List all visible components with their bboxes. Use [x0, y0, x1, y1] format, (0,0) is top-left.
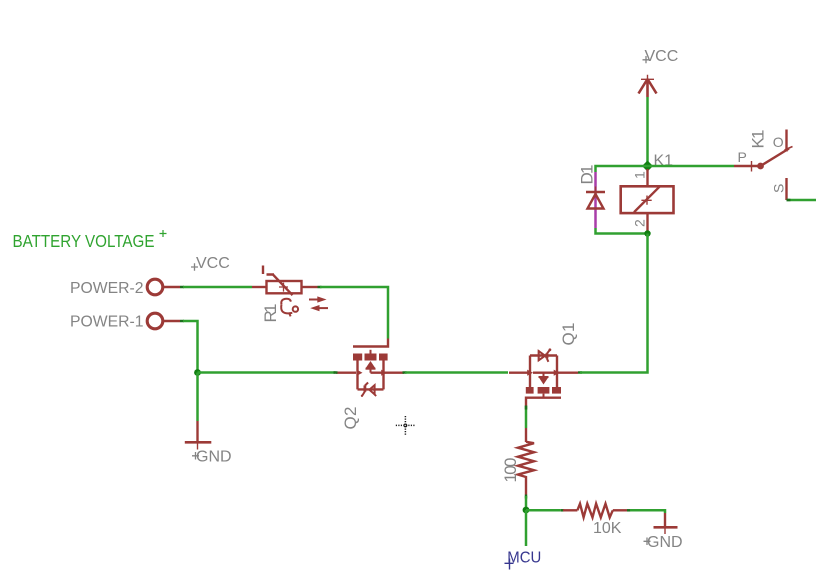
pin tick 10K left [561, 509, 565, 512]
svg-text:GND: GND [647, 534, 683, 551]
wire POWER-2 to R1 [183, 286, 252, 289]
pin POWER-2 lead [164, 286, 181, 288]
pin tick S [787, 199, 791, 202]
relay K1 switch pivot [757, 163, 764, 170]
diode D1 [586, 187, 605, 209]
pin POWER-2 circle [147, 279, 163, 295]
svg-text:R1: R1 [261, 304, 280, 323]
power symbol VCC (top) label [643, 48, 679, 65]
label VCC (net at POWER-2) [191, 255, 230, 272]
ground GND (left) [185, 421, 212, 450]
svg-text:S: S [770, 184, 786, 193]
wire K1 node to switch pin P [648, 165, 735, 168]
svg-text:VCC: VCC [645, 48, 679, 65]
pin POWER-1 lead [164, 320, 181, 322]
wire MCU node to 10K [526, 509, 561, 512]
svg-text:POWER-1: POWER-1 [70, 314, 144, 331]
resistor R1 (trimmer) [252, 266, 318, 296]
wire bus junction down to GND [196, 373, 199, 422]
pin 1 lead (coil) [646, 169, 648, 186]
relay K1 switch terminal O [785, 130, 787, 152]
wire VCC arrow to relay K1 node [646, 97, 649, 166]
relay K1 coil box [621, 186, 674, 213]
label GND (left) [192, 449, 232, 466]
relay K1 switch terminal S [785, 178, 787, 200]
mouse cursor crosshair [396, 416, 415, 435]
label MCU [505, 550, 542, 570]
wire Q2 to Q1 [405, 371, 508, 374]
svg-text:2: 2 [631, 219, 647, 227]
pin tick 100 bottom [525, 495, 528, 499]
svg-text:BATTERY VOLTAGE: BATTERY VOLTAGE [13, 231, 155, 251]
svg-text:POWER-2: POWER-2 [70, 280, 144, 297]
wire K1 node to D1 top [596, 166, 648, 172]
wire S terminal to right edge [787, 199, 816, 202]
wire R1 to Q2 gate [320, 287, 388, 339]
power symbol VCC (top) arrow [639, 75, 657, 97]
svg-text:P: P [738, 149, 747, 165]
svg-text:Q1: Q1 [559, 323, 578, 346]
svg-text:O: O [773, 134, 784, 150]
pin tick Q1 right [578, 371, 582, 374]
net highlight D1 anode/cathode (magenta) [594, 172, 597, 228]
relay K1 switch pole P lead [734, 161, 758, 172]
resistor 100 [518, 428, 534, 495]
R1 theta glyph [281, 299, 298, 317]
relay K1 switch arm [761, 147, 793, 167]
pin tick R1 right [318, 286, 322, 289]
wire bus junction to Q2 [198, 371, 336, 374]
wire 10K to GND (right) [630, 510, 665, 513]
wire 100 to MCU node [525, 496, 528, 510]
wire POWER-1 down to ground bus [183, 321, 198, 373]
wire D1 bottom to coil bottom node [596, 228, 648, 234]
node ground bus junction [194, 369, 201, 376]
pin tick Q2 right [403, 371, 407, 374]
ground GND (right) [654, 513, 678, 534]
pin tick Q1 gate [525, 406, 528, 410]
pin tick POWER-1 [180, 320, 184, 323]
pin tick POWER-2 [180, 286, 184, 289]
pin POWER-1 circle [147, 313, 163, 329]
label GND (right) [644, 534, 683, 551]
pin 2 lead (coil) [646, 213, 648, 231]
node K1 coil top junction [642, 161, 653, 172]
svg-text:100: 100 [501, 458, 520, 483]
svg-text:GND: GND [196, 449, 232, 466]
svg-text:Q2: Q2 [341, 407, 360, 430]
svg-text:1: 1 [631, 171, 647, 179]
resistor 10K [563, 504, 627, 518]
svg-text:VCC: VCC [196, 255, 230, 272]
wire Q1 gate to resistor 100 [525, 406, 528, 428]
svg-text:K1: K1 [749, 130, 768, 149]
svg-text:10K: 10K [593, 520, 622, 537]
label BATTERY VOLTAGE [13, 230, 167, 251]
pin tick 10K right [627, 509, 631, 512]
transistor Q2 (P-MOSFET) [336, 339, 404, 397]
pin tick Q2 left [334, 371, 338, 374]
R1 arrows [309, 296, 328, 311]
transistor Q1 (P-MOSFET) [509, 348, 578, 406]
node MCU junction [523, 507, 530, 514]
node K1 coil bottom junction [644, 230, 650, 236]
wire MCU node down [525, 510, 528, 546]
svg-text:D1: D1 [578, 165, 597, 185]
wire Q1 to relay coil node [580, 234, 648, 373]
